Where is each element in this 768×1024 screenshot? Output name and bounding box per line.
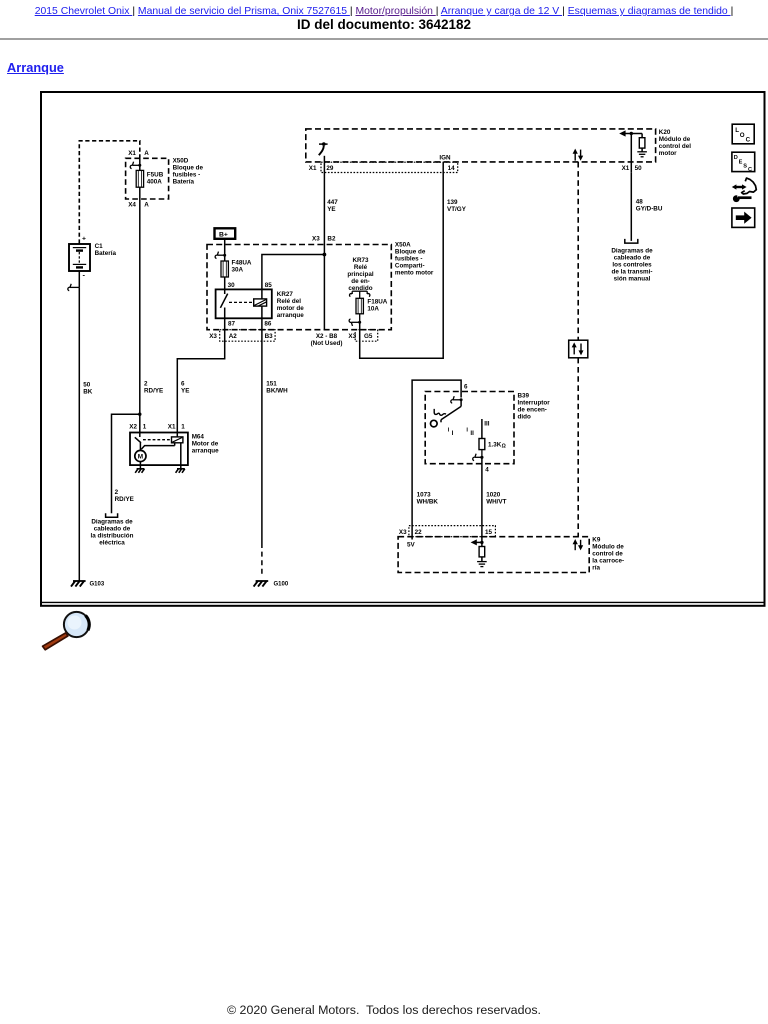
svg-text:cableado de: cableado de (614, 255, 651, 262)
svg-text:Ω: Ω (502, 444, 506, 450)
label 1073 WH/BK (417, 492, 439, 506)
svg-text:fusibles -: fusibles - (395, 256, 423, 263)
icon DESC box (732, 152, 755, 173)
svg-text:Relé: Relé (354, 264, 368, 271)
label 5V (407, 541, 416, 548)
svg-text:X2: X2 (129, 424, 137, 431)
wire F48UA to relay 30 (224, 277, 226, 289)
svg-text:Bloque de: Bloque de (173, 165, 204, 172)
note Diagramas de cableado de los controles de la transmision manual (611, 248, 653, 283)
svg-text:RD/YE: RD/YE (144, 388, 163, 395)
label F5UB 400A (147, 172, 164, 186)
svg-text:1: 1 (181, 424, 185, 431)
K9 input arrow (471, 539, 484, 545)
ignition request key symbol (319, 142, 328, 155)
label B39 Interruptor de encendido (518, 393, 551, 421)
svg-text:X50A: X50A (395, 242, 411, 249)
svg-text:6: 6 (464, 383, 468, 390)
svg-text:F5UB: F5UB (147, 172, 164, 179)
serial data continuation box (569, 340, 588, 358)
B39 detent squiggle (434, 409, 446, 415)
M64 mechanical link (dashed) (143, 439, 172, 441)
junction B2 (323, 253, 327, 257)
connector X3 dotted box (22 / 15) K9 (409, 526, 496, 537)
svg-text:WH/BK: WH/BK (417, 499, 439, 506)
svg-text:eléctrica: eléctrica (99, 540, 125, 547)
svg-text:Módulo de: Módulo de (659, 136, 691, 143)
svg-text:M64: M64 (192, 434, 205, 441)
svg-text:Relé del: Relé del (277, 298, 301, 305)
svg-text:6: 6 (181, 381, 185, 388)
svg-text:Motor de: Motor de (192, 441, 219, 448)
label X50A Bloque de fusibles - Compartimento motor (395, 242, 434, 277)
wire battery negative to splice (78, 271, 80, 287)
label K20 Modulo de control del motor (659, 129, 691, 157)
wire 1073 WH/BK (K9 X3-22 to B39 pin 6) (412, 380, 461, 539)
icon arrow box (732, 208, 755, 227)
label X3 22 (399, 529, 422, 536)
svg-text:II: II (470, 430, 474, 437)
terminal label X1 A (X50D top) (128, 150, 149, 157)
label 139 VT/GY (447, 199, 467, 213)
fuse clevis F18UA bottom (349, 314, 361, 326)
svg-text:14: 14 (448, 165, 456, 172)
svg-text:motor: motor (659, 150, 677, 157)
K20 serial data arrows (573, 149, 584, 161)
svg-text:I: I (452, 430, 454, 437)
connector X1 dotted box (29 / IGN 14) (321, 162, 458, 172)
label pin 6 (464, 383, 468, 390)
svg-text:Batería: Batería (95, 250, 117, 257)
svg-text:B2: B2 (327, 235, 336, 242)
relay KR73 contact bar (349, 291, 369, 298)
svg-text:X4: X4 (128, 202, 136, 209)
B39 rotary hub (431, 420, 438, 427)
svg-text:C: C (748, 167, 752, 173)
svg-text:de en-: de en- (351, 278, 370, 285)
K20 data link arrow (619, 130, 642, 136)
svg-text:III: III (484, 420, 489, 427)
svg-text:139: 139 (447, 199, 458, 206)
svg-text:(Not Used): (Not Used) (311, 340, 343, 347)
label 1.3K ohm (488, 442, 506, 450)
label X3 A2 B3 (209, 333, 273, 340)
svg-text:87: 87 (228, 320, 236, 327)
wire 2 RD/YE (X4-A to M64 X2-1) (139, 187, 141, 432)
svg-text:M: M (138, 454, 143, 461)
label K9 Modulo de control de la carroceria (592, 537, 624, 572)
svg-text:GY/D-BU: GY/D-BU (636, 206, 663, 213)
svg-text:50: 50 (635, 165, 643, 172)
svg-text:BK: BK (83, 389, 93, 396)
ignition switch B39 dashed box (425, 392, 514, 464)
svg-text:cableado de: cableado de (94, 526, 131, 533)
label 447 YE (327, 199, 338, 213)
svg-text:control de: control de (592, 551, 623, 558)
pin 87 label (228, 320, 236, 327)
svg-text:mento motor: mento motor (395, 270, 434, 277)
svg-text:447: 447 (327, 199, 338, 206)
wire B+ to F48UA (224, 239, 226, 261)
wire K20 pin 50 inside box (630, 134, 632, 173)
svg-text:C1: C1 (95, 243, 104, 250)
svg-text:G5: G5 (364, 333, 373, 340)
fuse F48UA 30A (221, 261, 228, 277)
off-page connector (distribution) (106, 513, 118, 517)
label 50 BK (83, 382, 93, 396)
label X2-B8 Not Used (311, 333, 343, 347)
serial data dashed link K20 to K9 (577, 162, 579, 537)
svg-text:85: 85 (265, 282, 273, 289)
svg-text:YE: YE (327, 206, 335, 213)
M64 motor M (135, 450, 146, 468)
svg-text:30A: 30A (232, 267, 244, 274)
label 2 RD/YE (upper) (144, 381, 163, 395)
wire 85 to coil to 86 (261, 289, 263, 318)
svg-text:X1: X1 (309, 165, 317, 172)
label 151 BK/WH (266, 381, 288, 395)
wire 139 VT/GY (IGN 14 to G5) (360, 162, 444, 358)
svg-text:IGN: IGN (439, 154, 451, 161)
svg-text:F18UA: F18UA (367, 299, 387, 306)
pin 86 label (264, 320, 272, 327)
svg-text:1: 1 (143, 424, 147, 431)
label X3 B2 (312, 235, 336, 242)
svg-text:B3: B3 (265, 333, 274, 340)
BCM K9 dashed box (398, 537, 589, 573)
svg-text:Diagramas de: Diagramas de (611, 248, 653, 255)
label 14 (448, 165, 456, 172)
svg-text:WH/VT: WH/VT (486, 499, 506, 506)
svg-text:Batería: Batería (173, 179, 195, 186)
svg-text:X1: X1 (168, 424, 176, 431)
label F48UA 30A (232, 260, 252, 274)
svg-text:1.3K: 1.3K (488, 442, 502, 449)
svg-text:X3: X3 (399, 529, 407, 536)
label 15 (485, 529, 493, 536)
label X50D Bloque de fusibles - Bateria (173, 158, 204, 186)
svg-text:motor de: motor de (277, 305, 304, 312)
wire 6 YE (relay 87/A2 to M64 X1-1) (177, 318, 224, 432)
ECM K20 dashed box (306, 129, 656, 162)
svg-text:86: 86 (264, 320, 272, 327)
svg-text:RD/YE: RD/YE (115, 496, 134, 503)
svg-text:KR27: KR27 (277, 291, 294, 298)
svg-text:X3: X3 (348, 333, 356, 340)
wire 447 YE (323, 173, 325, 255)
label X1 29 (309, 165, 334, 172)
svg-text:B39: B39 (518, 393, 530, 400)
ground (K9 internal) (477, 562, 487, 567)
fuse F18UA 10A (356, 298, 363, 314)
svg-text:Comparti-: Comparti- (395, 263, 425, 270)
relay KR27 coil (254, 299, 267, 306)
relay KR27 switch (220, 289, 227, 318)
icon hyperlink wrench (732, 178, 757, 202)
B39 resistor feed wire (481, 419, 483, 439)
wire F18UA to G5 (359, 323, 361, 342)
label C1 Bateria (95, 243, 117, 257)
svg-text:E: E (739, 159, 743, 165)
connector X3 dotted box (A2 B3) (220, 330, 275, 342)
svg-text:BK/WH: BK/WH (266, 388, 288, 395)
wire from key symbol to X1-29 (323, 156, 325, 173)
svg-text:Módulo de: Módulo de (592, 544, 624, 551)
B39 pin 6 clevis (451, 396, 463, 403)
svg-text:48: 48 (636, 199, 644, 206)
wire 50 BK (78, 287, 80, 580)
svg-text:O: O (740, 132, 745, 139)
note Diagramas de cableado de la distribucion electrica (90, 519, 133, 547)
svg-text:sión manual: sión manual (614, 276, 651, 283)
svg-text:F48UA: F48UA (232, 260, 252, 267)
M64 solenoid coil (172, 437, 183, 443)
wire X1-A into fuse (139, 158, 141, 171)
terminal labels X2 1 / X1 1 (M64) (129, 424, 185, 431)
B+ label box (215, 228, 236, 239)
svg-text:los controles: los controles (612, 262, 652, 269)
svg-text:G100: G100 (274, 581, 289, 587)
fuse block X50A dashed box (207, 245, 391, 330)
svg-text:151: 151 (266, 381, 277, 388)
svg-text:la distribución: la distribución (90, 533, 133, 540)
wire tap to electrical distribution reference (112, 414, 140, 513)
M64 solenoid switch (135, 433, 141, 451)
wire 1020 WH/VT (481, 457, 483, 541)
svg-text:B+: B+ (219, 231, 228, 238)
svg-text:la carroce-: la carroce- (592, 558, 624, 565)
label 48 GY/D-BU (636, 199, 663, 213)
battery C1 (69, 236, 90, 280)
starter motor M64 box (130, 433, 188, 466)
svg-text:arranque: arranque (277, 312, 304, 319)
svg-text:L: L (735, 127, 739, 134)
svg-text:de encen-: de encen- (518, 407, 547, 414)
diagram frame (41, 92, 765, 606)
label 2 RD/YE (branch) (115, 489, 134, 503)
svg-text:G103: G103 (90, 581, 105, 587)
svg-text:+: + (82, 236, 86, 243)
svg-text:1073: 1073 (417, 492, 432, 499)
svg-text:400A: 400A (147, 179, 163, 186)
label KR27 Rele del motor de arranque (277, 291, 304, 319)
K9 serial data arrows (573, 539, 584, 550)
svg-text:X50D: X50D (173, 158, 189, 165)
terminal label X4 A (128, 202, 149, 209)
magnifier icon (43, 612, 90, 650)
svg-text:10A: 10A (367, 306, 379, 313)
svg-text:KR73: KR73 (352, 257, 369, 264)
svg-text:Interruptor: Interruptor (518, 400, 551, 407)
M64 coil wires (141, 433, 181, 469)
junction splice (2 RD/YE tap) (138, 413, 141, 416)
svg-text:1020: 1020 (486, 492, 501, 499)
svg-text:dido: dido (518, 414, 531, 421)
pin 30 label (228, 282, 236, 289)
svg-text:4: 4 (485, 467, 489, 474)
svg-text:S: S (743, 164, 747, 170)
svg-text:2: 2 (144, 381, 148, 388)
svg-text:principal: principal (347, 271, 373, 278)
ground G100 (254, 581, 289, 587)
label X1 50 (622, 165, 643, 172)
svg-text:K9: K9 (592, 537, 601, 544)
ground (M64 solenoid) (176, 469, 185, 473)
B39 lower clevis with junction (473, 450, 484, 461)
svg-text:X3: X3 (209, 333, 217, 340)
svg-text:5V: 5V (407, 541, 416, 548)
ground (K20 internal) (637, 152, 647, 157)
battery positive dashed cable (79, 141, 140, 244)
inline connector (battery negative) (68, 284, 79, 291)
fuse block X50D dashed box (126, 158, 169, 199)
fuse clevis F48UA top (215, 252, 226, 259)
svg-text:de la transmi-: de la transmi- (612, 269, 653, 276)
svg-text:X3: X3 (312, 235, 320, 242)
svg-text:X1: X1 (622, 165, 630, 172)
svg-text:15: 15 (485, 529, 493, 536)
K20 pull-up resistor (639, 134, 645, 152)
label IGN (439, 154, 451, 161)
label 6 YE (181, 381, 189, 395)
svg-text:Bloque de: Bloque de (395, 249, 426, 256)
svg-text:arranque: arranque (192, 448, 219, 455)
icon LOC box (732, 124, 754, 144)
pin 85 label (265, 282, 273, 289)
label KR73 Rele principal de encendido (347, 257, 373, 292)
relay KR27 mechanical link (dashed) (229, 301, 254, 303)
ground (M64 motor) (135, 469, 144, 473)
svg-text:K20: K20 (659, 129, 671, 136)
svg-text:fusibles -: fusibles - (173, 172, 201, 179)
svg-text:A2: A2 (229, 333, 238, 340)
label X3 G5 (348, 333, 372, 340)
label 1020 WH/VT (486, 492, 506, 506)
svg-text:22: 22 (415, 529, 423, 536)
ground G103 (71, 581, 105, 587)
svg-text:VT/GY: VT/GY (447, 206, 467, 213)
connector X3 dotted box (G5) (355, 330, 378, 342)
svg-text:50: 50 (83, 382, 91, 389)
resistor 1.3K (479, 439, 485, 450)
svg-text:A: A (144, 202, 149, 209)
label F18UA 10A (367, 299, 387, 313)
wire B2 to relay 85 (with junction) (262, 255, 325, 330)
wire 151 BK/WH (relay 86/B3 to G100) (261, 318, 263, 576)
B39 position I (448, 428, 454, 438)
svg-text:2: 2 (115, 489, 119, 496)
fuse clevis F5UB top (130, 162, 141, 169)
svg-text:Diagramas de: Diagramas de (91, 519, 133, 526)
B39 position II (466, 428, 474, 438)
label pin 4 (485, 467, 489, 474)
svg-text:C: C (746, 137, 751, 144)
svg-text:D: D (734, 155, 738, 161)
off-page connector (transmission controls) (625, 239, 638, 243)
svg-text:A: A (144, 150, 149, 157)
wire 48 GY/D-BU (630, 172, 632, 241)
B39 position III (484, 420, 489, 427)
relay KR27 box (216, 289, 272, 318)
fuse F5UB 400A (136, 170, 143, 187)
svg-text:29: 29 (326, 165, 334, 172)
svg-text:X1: X1 (128, 150, 136, 157)
K9 internal resistor (479, 542, 485, 561)
svg-text:control del: control del (659, 143, 691, 150)
svg-text:ría: ría (592, 565, 600, 572)
svg-text:YE: YE (181, 388, 189, 395)
label M64 Motor de arranque (192, 434, 219, 455)
B39 switch arm (441, 400, 461, 423)
svg-text:30: 30 (228, 282, 236, 289)
